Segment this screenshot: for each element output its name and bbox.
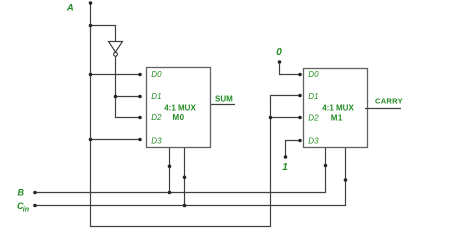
svg-text:B: B bbox=[18, 187, 25, 197]
svg-text:M1: M1 bbox=[331, 114, 343, 123]
svg-text:D2: D2 bbox=[308, 114, 319, 123]
svg-text:D0: D0 bbox=[308, 70, 319, 79]
svg-text:0: 0 bbox=[276, 47, 282, 58]
svg-text:SUM: SUM bbox=[215, 95, 233, 104]
svg-text:4:1 MUX: 4:1 MUX bbox=[322, 104, 354, 113]
svg-text:D3: D3 bbox=[151, 137, 162, 146]
svg-text:D2: D2 bbox=[151, 113, 162, 122]
svg-text:A: A bbox=[66, 3, 74, 14]
svg-text:M0: M0 bbox=[172, 113, 184, 122]
svg-text:CARRY: CARRY bbox=[375, 97, 403, 106]
svg-text:in: in bbox=[23, 207, 29, 214]
svg-text:1: 1 bbox=[282, 162, 288, 173]
svg-text:D1: D1 bbox=[151, 92, 161, 101]
svg-text:D0: D0 bbox=[151, 70, 162, 79]
svg-text:4:1 MUX: 4:1 MUX bbox=[164, 104, 196, 113]
svg-text:D3: D3 bbox=[308, 136, 319, 145]
svg-text:D1: D1 bbox=[308, 92, 318, 101]
